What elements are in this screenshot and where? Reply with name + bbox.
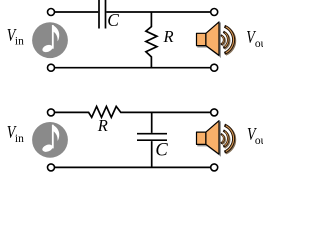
svg-text:in: in bbox=[15, 133, 24, 145]
svg-text:out: out bbox=[255, 38, 263, 50]
svg-text:out: out bbox=[255, 135, 263, 147]
svg-text:in: in bbox=[15, 35, 24, 47]
svg-text:C: C bbox=[107, 10, 119, 30]
svg-text:R: R bbox=[163, 27, 174, 46]
svg-text:R: R bbox=[97, 116, 108, 135]
svg-text:C: C bbox=[155, 140, 168, 160]
